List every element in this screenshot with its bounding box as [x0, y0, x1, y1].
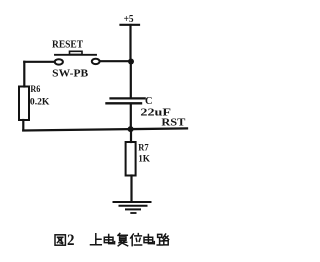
wire: left rail to switch left terminal	[24, 61, 54, 63]
caption char 上	[91, 234, 102, 245]
svg-text:22uF: 22uF	[140, 106, 171, 118]
svg-text:2: 2	[67, 232, 75, 249]
switch SW-PB right terminal	[92, 59, 100, 64]
svg-text:SW-PB: SW-PB	[52, 68, 88, 79]
caption char 路	[157, 234, 168, 245]
wire: capacitor down to RST line	[130, 104, 132, 129]
wire: RST net horizontal line	[23, 128, 187, 130]
resistor R7	[126, 142, 136, 176]
svg-text:R6: R6	[30, 84, 40, 95]
resistor R6	[19, 87, 29, 121]
wire: R6 bottom down to RST line	[22, 120, 24, 130]
svg-text:+5: +5	[124, 14, 134, 25]
svg-text:RST: RST	[161, 117, 185, 128]
svg-text:C: C	[145, 96, 153, 107]
power rail bar	[121, 24, 140, 26]
wire: R7 bottom to ground	[130, 176, 132, 202]
svg-text:0.2K: 0.2K	[30, 96, 50, 107]
svg-text:R7: R7	[138, 143, 149, 154]
capacitor C bottom plate	[107, 102, 142, 104]
caption char 复	[118, 233, 128, 245]
wire: junction down to R7	[130, 129, 132, 142]
node: switch/capacitor junction	[128, 59, 134, 65]
switch SW-PB actuator bar	[55, 54, 96, 56]
caption: 图 2 上电复位电路	[55, 232, 169, 249]
capacitor C top plate	[111, 97, 145, 99]
wire: left rail vertical down to R6	[23, 62, 25, 87]
ground	[114, 202, 151, 213]
caption char 电 (1st)	[104, 235, 114, 244]
wire: junction down to capacitor	[130, 62, 132, 98]
caption char 电 (2nd)	[144, 235, 154, 244]
switch SW-PB left terminal	[55, 59, 63, 64]
svg-text:1K: 1K	[138, 154, 150, 165]
caption char 位	[131, 234, 142, 246]
node: RST line junction	[128, 126, 134, 132]
switch SW-PB button bump	[70, 51, 83, 54]
svg-text:RESET: RESET	[52, 39, 83, 50]
caption char 图	[55, 235, 65, 245]
wire: power bar down to switch junction	[129, 25, 131, 62]
wire: switch right terminal to junction	[100, 60, 131, 62]
